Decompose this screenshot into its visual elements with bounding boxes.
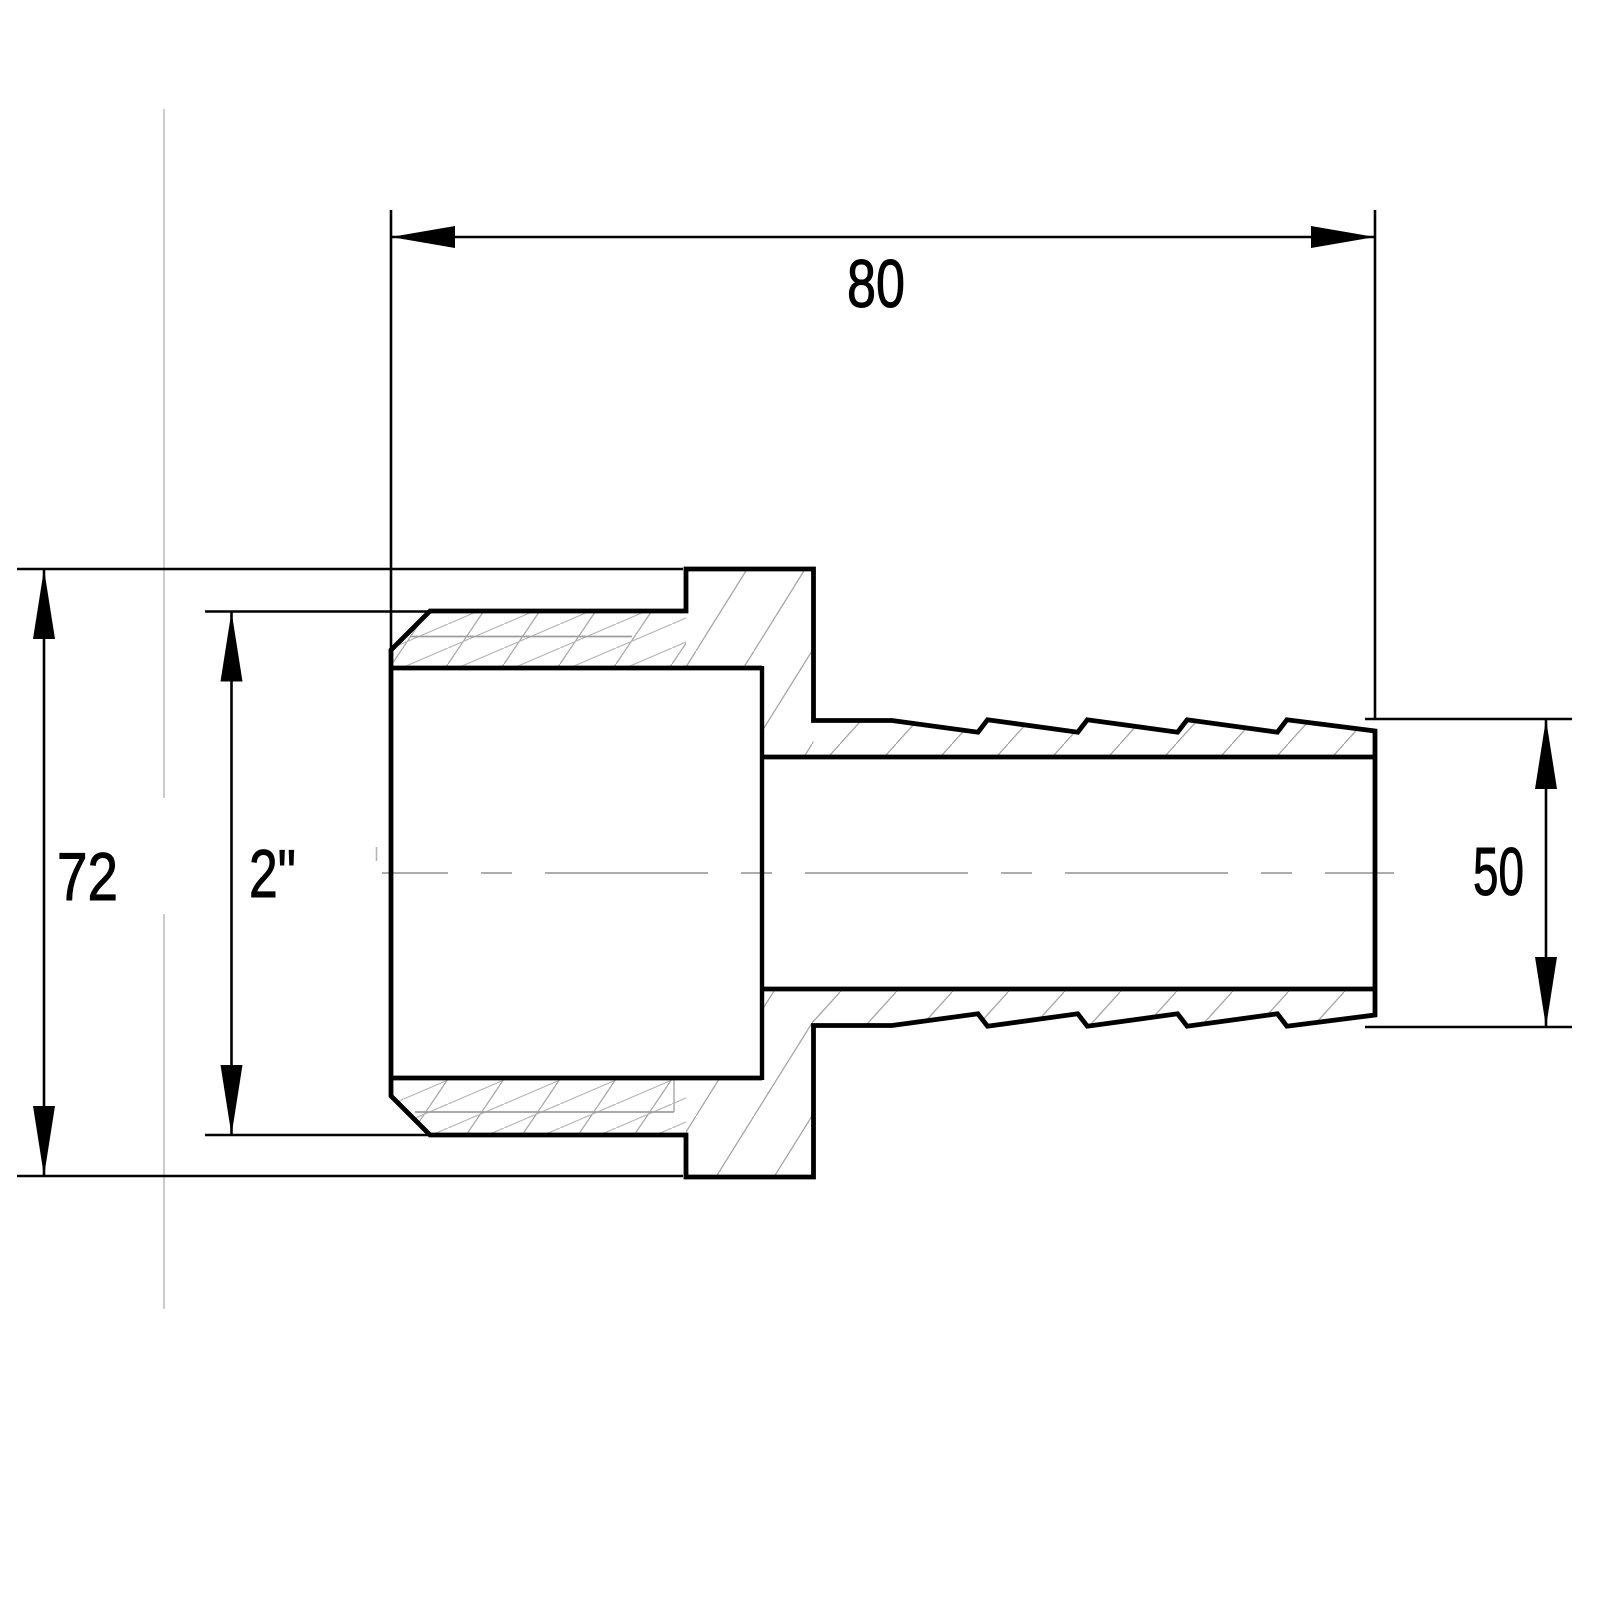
center mark tick — [376, 847, 378, 861]
construction line (vertical, lower segment) — [163, 914, 165, 1309]
hatch upper barb wall — [814, 720, 1376, 757]
barb bore bottom edge — [762, 987, 1375, 992]
dimension 72: bottom arrowhead — [33, 1106, 55, 1176]
dimension 2in: top extension line — [205, 610, 428, 612]
svg-text:80: 80 — [847, 246, 905, 322]
dimension 72: top extension line — [17, 568, 683, 570]
dimension 50: top extension line — [1365, 718, 1572, 720]
dimension 50: bottom extension line — [1365, 1026, 1572, 1028]
bore step wall — [760, 666, 764, 1080]
hatch lower thread-socket band — [391, 1078, 686, 1135]
hatch lower barb wall — [814, 989, 1376, 1026]
thread major-diameter thin line (upper) — [410, 636, 632, 638]
dimension 80: left arrowhead — [391, 226, 455, 248]
construction line (vertical, upper segment) — [163, 109, 165, 798]
dimension 72: bottom extension line — [17, 1175, 683, 1177]
dimension 2in: bottom extension line — [205, 1134, 428, 1136]
svg-text:2": 2" — [249, 836, 296, 912]
dimension 50: bottom arrowhead — [1535, 957, 1557, 1027]
center line (axis, dash-dot) — [382, 872, 1394, 874]
dimension 2in: top arrowhead — [221, 612, 243, 682]
dimension 50: top arrowhead — [1535, 719, 1557, 789]
hatch lower flange block — [686, 989, 814, 1177]
hatch upper thread-socket band — [391, 611, 686, 668]
barb bore top edge — [762, 755, 1375, 760]
thread end line (lower) — [673, 1078, 675, 1112]
dimension 50: dimension line — [1545, 719, 1548, 1027]
dimension 2in: dimension line — [230, 612, 233, 1136]
dimension 72: dimension line — [43, 569, 46, 1176]
thread major-diameter thin line (lower) — [415, 1111, 674, 1113]
dimension 80: dimension line — [391, 236, 1375, 239]
svg-text:72: 72 — [57, 839, 118, 915]
dimension 2in: bottom arrowhead — [221, 1065, 243, 1135]
svg-text:50: 50 — [1473, 834, 1524, 910]
part outline: hex socket, flange and hose barb (section) — [391, 569, 1375, 1177]
dimension 72: top arrowhead — [33, 569, 55, 639]
hatch upper flange block — [686, 569, 814, 757]
socket bore top edge — [391, 666, 762, 671]
dimension 80: right extension line — [1374, 210, 1377, 719]
dimension 80: left extension line — [390, 210, 393, 652]
dimension 80: right arrowhead — [1311, 226, 1375, 248]
socket bore bottom edge — [391, 1076, 762, 1081]
